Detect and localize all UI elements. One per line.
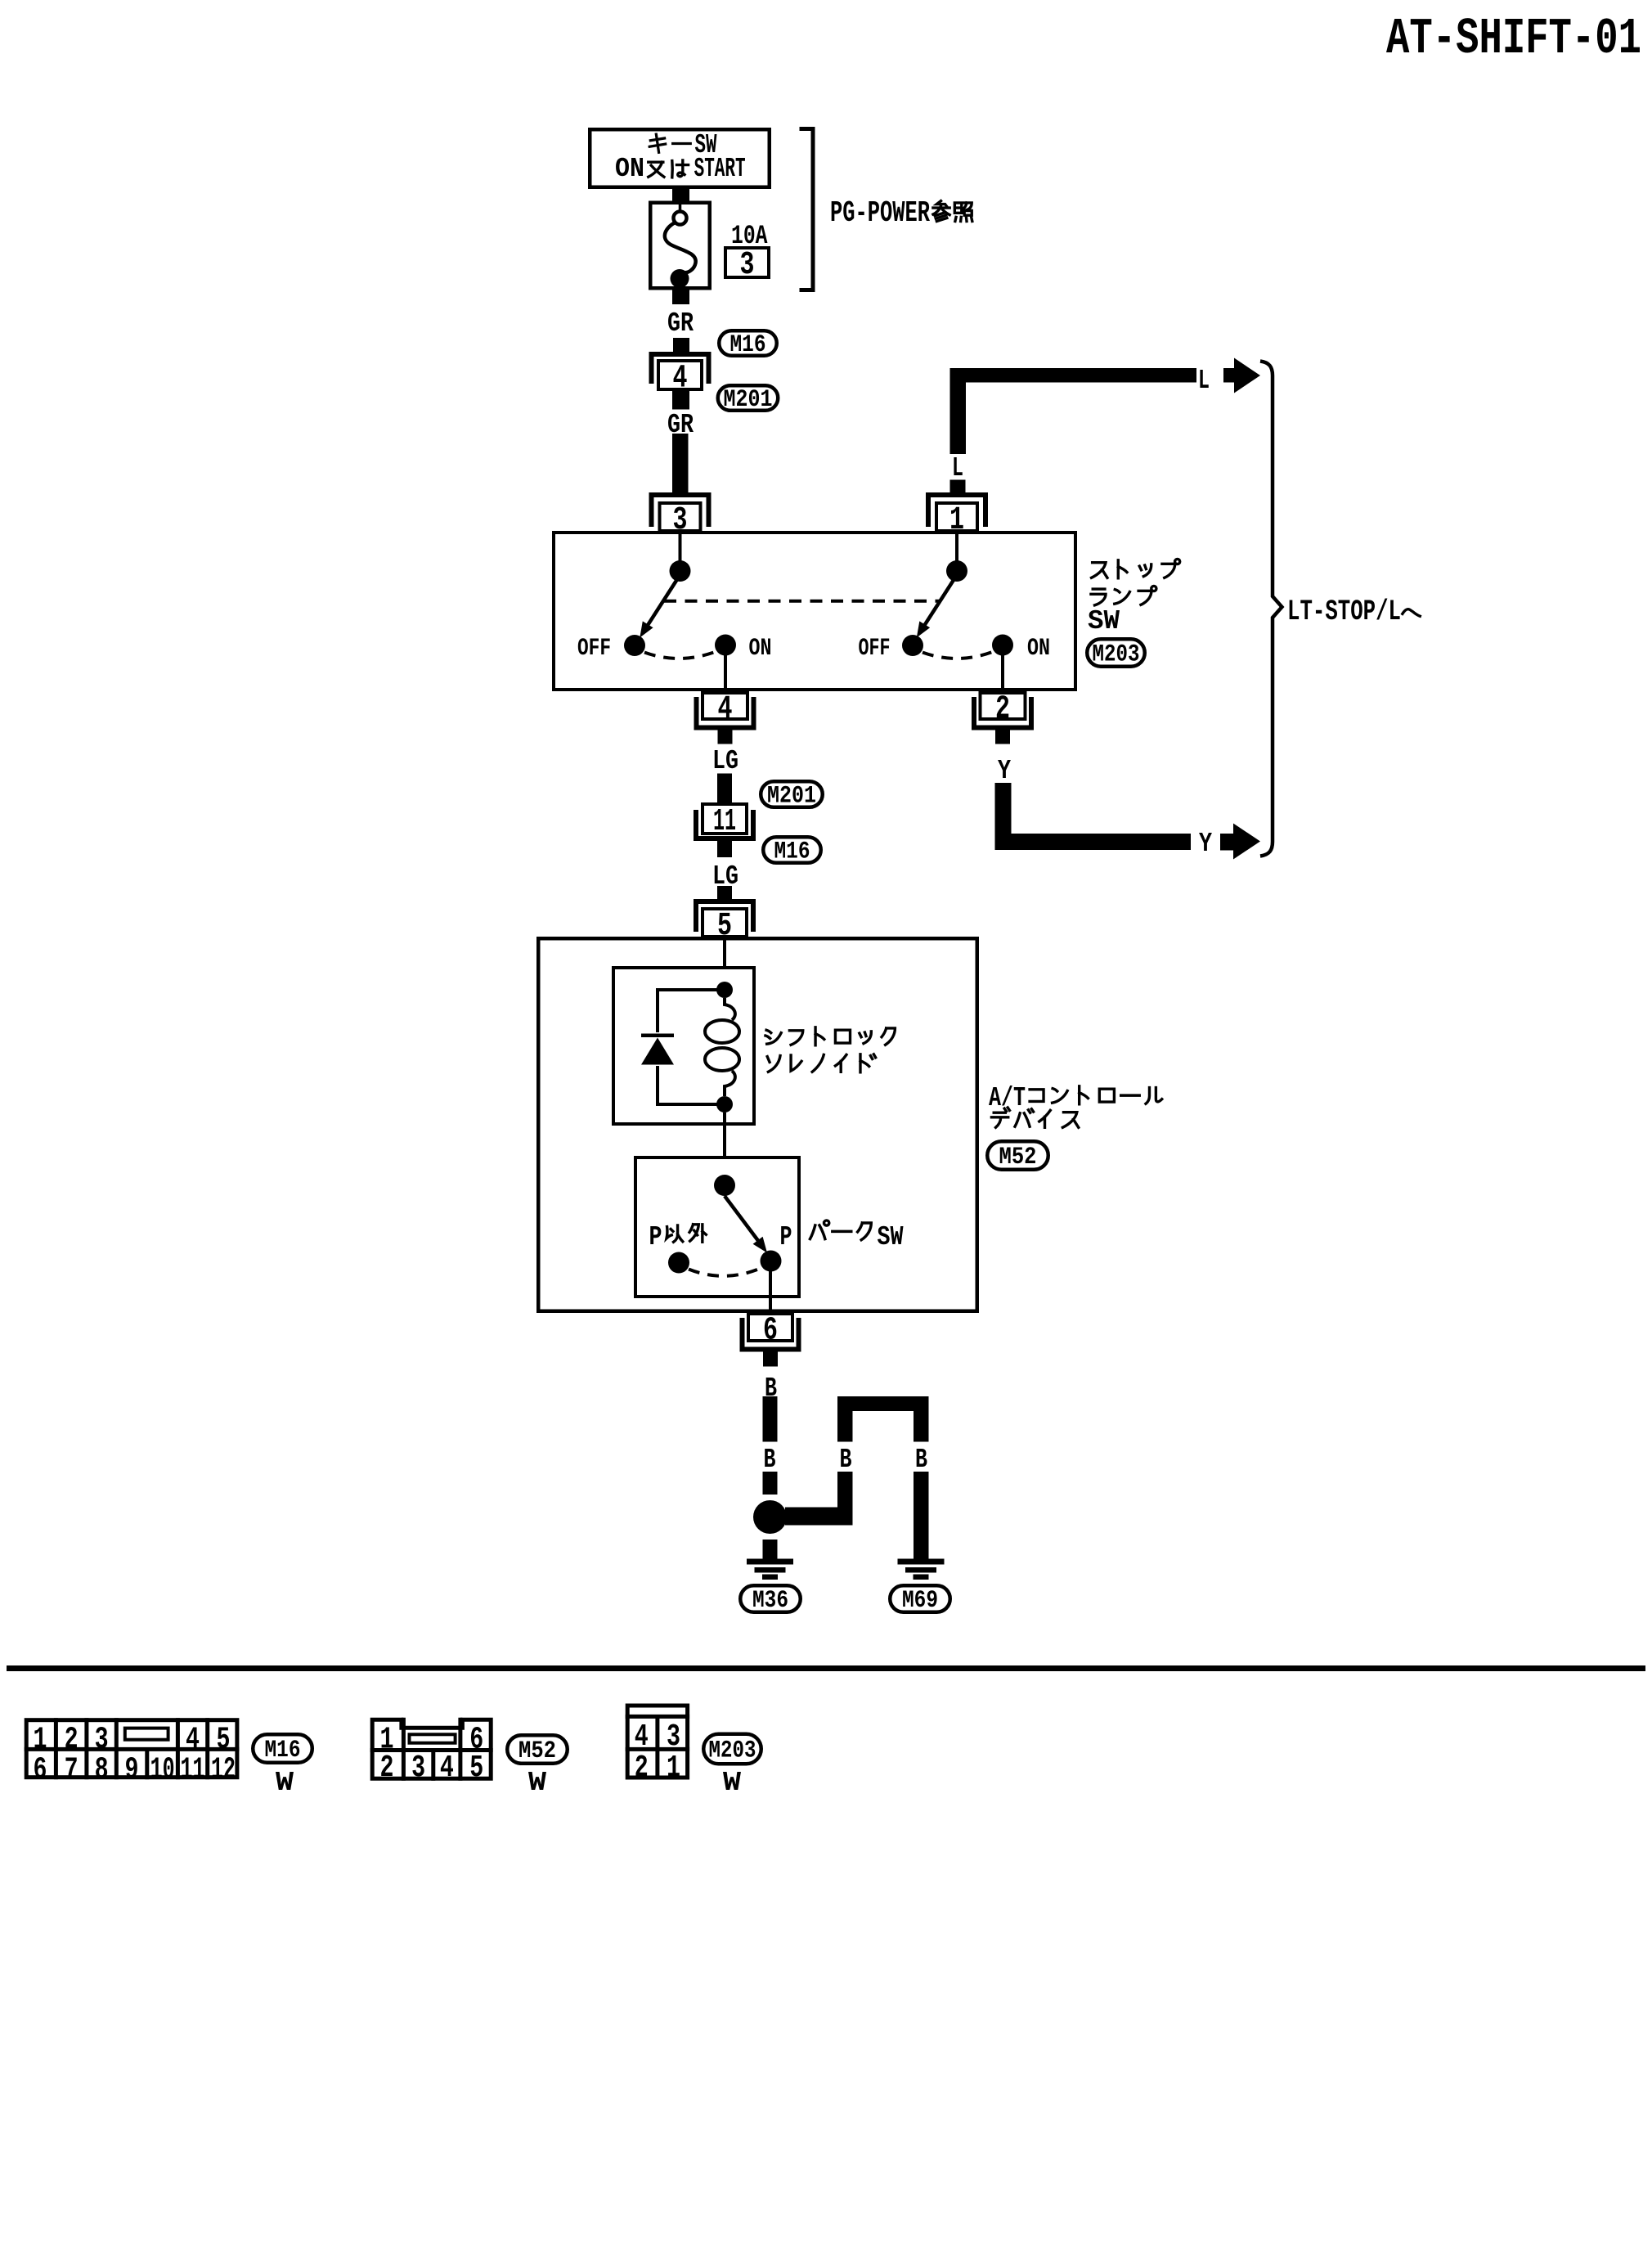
ground symbol M36	[747, 1559, 793, 1565]
connector pass-through 4 (M16/M201)	[652, 354, 709, 384]
svg-text:Y: Y	[1199, 829, 1212, 859]
wire stub below fuse	[672, 290, 689, 305]
key slot M16	[125, 1728, 168, 1740]
svg-text:M203: M203	[1093, 641, 1140, 668]
separator line	[7, 1665, 1645, 1671]
wire stub above pin 1	[950, 480, 966, 495]
connector oval M203 (table)	[703, 1734, 761, 1764]
ground oval M36	[740, 1585, 801, 1612]
svg-text:2: 2	[380, 1751, 394, 1786]
svg-text:6: 6	[763, 1313, 778, 1350]
solenoid top junction	[716, 982, 733, 998]
shift lock solenoid sub-box	[613, 968, 754, 1124]
park switch throw arc dashed	[689, 1268, 761, 1276]
A/T control device box	[538, 938, 977, 1311]
wire GR thick	[672, 434, 689, 496]
fuse number box 3	[725, 248, 769, 277]
svg-text:SW: SW	[878, 1222, 904, 1252]
ground symbol M69	[898, 1559, 945, 1565]
wire LG to pin 5	[717, 886, 732, 901]
wire B loop top	[837, 1396, 929, 1411]
connector oval M201	[718, 385, 779, 411]
svg-text:3: 3	[667, 1719, 680, 1755]
pin 2 of stop lamp switch	[974, 697, 1031, 728]
PG-POWER reference bracket	[800, 129, 814, 290]
right switch: feed line from pin 1	[955, 533, 958, 562]
connector face M203 (4-pin)	[627, 1706, 687, 1778]
right switch throw arc dashed	[923, 652, 994, 659]
connector oval M16 (mid)	[763, 837, 821, 863]
connector face M16 (12-pin)	[26, 1720, 237, 1778]
svg-text:P: P	[649, 1222, 662, 1252]
left switch common contact	[670, 560, 691, 582]
svg-text:4: 4	[440, 1751, 454, 1786]
connector face M52 (6-pin)	[372, 1719, 491, 1778]
wire B branch horizontal	[785, 1508, 853, 1526]
wire B branch vertical up	[837, 1472, 853, 1526]
ground junction dot	[753, 1500, 787, 1534]
connector oval M52	[987, 1141, 1048, 1170]
right switch ON contact	[992, 635, 1013, 656]
svg-text:2: 2	[635, 1751, 649, 1786]
svg-text:M203: M203	[709, 1737, 756, 1764]
svg-text:M16: M16	[265, 1737, 301, 1764]
right switch lever with arrow	[921, 580, 954, 632]
wire stub below connector 11	[717, 841, 732, 857]
svg-text:12: 12	[211, 1753, 236, 1788]
diode (cathode bar and triangle)	[641, 1034, 674, 1038]
svg-text:L: L	[1198, 366, 1210, 396]
svg-text:5: 5	[469, 1751, 483, 1786]
park switch common contact	[714, 1175, 735, 1196]
svg-text:SW: SW	[1088, 606, 1120, 636]
arrow Y to LT-STOP	[1220, 834, 1234, 851]
svg-text:M36: M36	[752, 1587, 788, 1615]
label shift lock solenoid	[765, 1030, 781, 1044]
svg-text:4: 4	[635, 1719, 649, 1755]
svg-text:LT-STOP/L: LT-STOP/L	[1287, 596, 1401, 628]
svg-text:M69: M69	[902, 1587, 938, 1615]
svg-text:2: 2	[995, 691, 1010, 728]
pin 4 of stop lamp switch	[697, 697, 754, 728]
left switch OFF contact	[624, 635, 645, 656]
pin 1 of stop lamp switch	[928, 495, 985, 527]
wire P contact to pin 6	[769, 1271, 772, 1313]
svg-text:10: 10	[150, 1753, 175, 1788]
wire stub from power box to fuse	[672, 187, 689, 201]
left switch line to pin 4	[724, 655, 727, 693]
svg-text:M16: M16	[774, 838, 810, 865]
svg-text:B: B	[840, 1445, 852, 1475]
left switch throw arc dashed	[644, 652, 716, 659]
svg-text:W: W	[276, 1768, 294, 1798]
wire stub below pin 6	[763, 1352, 778, 1367]
svg-text:AT-SHIFT-01: AT-SHIFT-01	[1386, 10, 1641, 68]
svg-text:ON: ON	[749, 635, 772, 663]
svg-text:11: 11	[181, 1753, 205, 1788]
svg-text:4: 4	[718, 691, 733, 728]
svg-text:M16: M16	[730, 331, 766, 359]
left switch lever with arrow	[644, 580, 677, 632]
connector pass-through 11 (M201/M16)	[703, 804, 747, 834]
svg-text:START: START	[694, 154, 746, 184]
pin 6 of AT control device	[743, 1318, 799, 1350]
pin 5 of AT control device	[696, 901, 753, 932]
svg-text:1: 1	[667, 1751, 680, 1786]
svg-text:PG-POWER: PG-POWER	[830, 196, 930, 230]
wire B to ground M36	[763, 1540, 778, 1560]
connector oval M16 (table)	[253, 1734, 312, 1763]
stop lamp switch box	[554, 533, 1075, 690]
svg-text:3: 3	[740, 247, 755, 284]
svg-text:L: L	[952, 453, 963, 483]
svg-text:3: 3	[411, 1751, 425, 1786]
svg-text:7: 7	[65, 1753, 79, 1788]
svg-text:W: W	[723, 1768, 741, 1798]
wire B right to ground M69	[914, 1472, 929, 1560]
connector oval M203	[1087, 639, 1145, 667]
right switch common contact	[946, 560, 967, 582]
svg-text:ON: ON	[1027, 635, 1050, 663]
svg-text:Y: Y	[998, 756, 1011, 786]
wire B middle upper	[837, 1396, 853, 1442]
svg-text:P: P	[780, 1222, 792, 1252]
svg-text:B: B	[764, 1445, 776, 1475]
svg-text:M52: M52	[518, 1737, 556, 1765]
wire solenoid to park switch	[723, 1113, 726, 1176]
park switch sub-box	[635, 1157, 799, 1297]
park switch lever with arrow	[725, 1196, 759, 1242]
brace to LT-STOP/L	[1260, 362, 1282, 856]
svg-text:OFF: OFF	[859, 635, 891, 663]
wire B right upper	[914, 1396, 929, 1442]
connector oval M201 (mid)	[761, 781, 823, 807]
right switch OFF contact	[902, 635, 923, 656]
connector oval M16	[719, 330, 777, 356]
wire LG	[717, 774, 732, 803]
svg-text:OFF: OFF	[577, 635, 611, 663]
left switch: feed line from pin 3	[679, 533, 682, 562]
wire pin5 to solenoid	[723, 938, 726, 986]
wire Y from pin 2	[995, 730, 1010, 744]
right switch line to pin 2	[1001, 655, 1004, 693]
power source box: key SW ON or START	[590, 129, 770, 187]
left switch ON contact	[715, 635, 736, 656]
fuse 10A #3	[650, 203, 710, 289]
solenoid bottom junction	[716, 1096, 733, 1113]
wire stub below connector 4	[672, 391, 689, 410]
arrow L to LT-STOP	[1223, 368, 1235, 383]
pin 3 of stop lamp switch	[652, 495, 709, 527]
wire B segment 2	[763, 1472, 778, 1495]
svg-text:W: W	[528, 1768, 546, 1798]
svg-text:LG: LG	[712, 746, 738, 776]
label park SW	[810, 1220, 828, 1239]
park switch P contact	[761, 1251, 782, 1272]
svg-text:8: 8	[95, 1753, 109, 1788]
svg-text:M201: M201	[767, 782, 816, 810]
wire B segment 1	[763, 1396, 778, 1442]
switch label stop lamp SW	[1092, 563, 1107, 578]
connector oval M52 (table)	[507, 1735, 568, 1764]
svg-text:GR: GR	[667, 308, 694, 339]
wire L thick top right	[950, 368, 967, 454]
park switch P-igai contact	[668, 1252, 689, 1274]
svg-text:M201: M201	[724, 386, 773, 414]
ground oval M69	[890, 1585, 950, 1612]
wire stub GR	[673, 338, 689, 353]
svg-text:ON: ON	[615, 154, 644, 184]
svg-text:M52: M52	[999, 1144, 1037, 1171]
wire stub below pin 4	[718, 730, 733, 744]
diode branch wiring	[658, 990, 725, 1032]
svg-text:11: 11	[713, 804, 736, 839]
svg-text:B: B	[915, 1445, 927, 1475]
svg-text:9: 9	[125, 1753, 139, 1788]
solenoid coil	[725, 998, 735, 1020]
mechanical link dashed line	[664, 600, 940, 603]
key slot M52	[410, 1734, 456, 1742]
svg-text:6: 6	[34, 1753, 47, 1788]
